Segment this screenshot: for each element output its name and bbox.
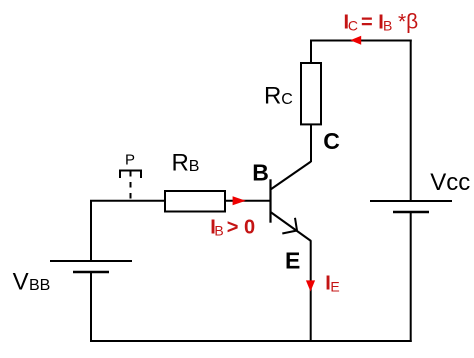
svg-text:C: C	[281, 91, 293, 108]
svg-text:BB: BB	[29, 277, 50, 294]
wire emitter vertical (elbow to bottom)	[310, 241, 312, 342]
battery VCC long plate	[370, 200, 452, 202]
svg-text:R: R	[264, 82, 281, 109]
wire top horizontal (collector to Vcc)	[310, 40, 412, 42]
svg-text:P: P	[125, 151, 135, 168]
svg-text:Vcc: Vcc	[430, 169, 470, 196]
svg-text:> 0: > 0	[227, 216, 255, 238]
wire base horizontal (VBB to base)	[90, 200, 271, 202]
svg-text:C: C	[323, 128, 340, 154]
svg-text:= I: = I	[361, 12, 384, 34]
wire left vertical upper (VBB top)	[90, 200, 92, 261]
wire left vertical lower (VBB bottom)	[90, 272, 92, 342]
svg-text:E: E	[285, 248, 300, 274]
battery VBB short plate	[73, 271, 109, 273]
wire right vertical lower (Vcc bottom)	[410, 212, 412, 342]
transistor Q1 emitter diagonal	[271, 212, 312, 241]
svg-text:B: B	[189, 158, 200, 175]
battery VBB long plate	[50, 260, 132, 262]
svg-text:R: R	[172, 149, 189, 176]
battery VCC short plate	[393, 211, 429, 213]
svg-text:C: C	[348, 18, 358, 34]
push button P actuator (dashed)	[130, 171, 132, 201]
transistor Q1 emitter arrowhead barb left	[282, 231, 297, 234]
wire collector vertical (elbow to RC)	[310, 124, 312, 162]
arrow IB (red, pointing right into base)	[233, 196, 246, 205]
transistor Q1 emitter arrowhead barb upper	[295, 218, 297, 231]
resistor RB	[165, 191, 225, 212]
wire right vertical upper (Vcc top)	[410, 40, 412, 202]
svg-text:B: B	[252, 160, 269, 186]
transistor Q1 collector diagonal	[271, 162, 312, 190]
svg-text:B: B	[383, 18, 392, 34]
wire bottom horizontal	[90, 340, 412, 342]
transistor Q1 base bar	[269, 179, 271, 222]
svg-text:*β: *β	[398, 11, 418, 34]
svg-text:V: V	[13, 268, 29, 295]
svg-text:B: B	[214, 222, 223, 238]
arrow IC (red, pointing left on top wire)	[350, 36, 361, 45]
push button P contact staple	[120, 171, 141, 179]
wire RC top to top wire	[310, 40, 312, 64]
arrow IE (red, pointing down)	[306, 280, 315, 291]
svg-text:E: E	[330, 279, 339, 295]
resistor RC	[301, 63, 321, 124]
